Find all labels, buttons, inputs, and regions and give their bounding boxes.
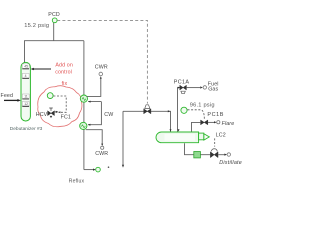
wire: cooler E1 to CWR top (87, 78, 101, 96)
tray 12 (22, 101, 29, 106)
annotation red cloud (38, 86, 82, 127)
tray 5 (22, 73, 29, 78)
svg-text:HCV: HCV (36, 112, 48, 118)
column T1 (21, 62, 30, 121)
wire: main condenser vertical (83, 41, 85, 170)
svg-text:45: 45 (24, 65, 28, 69)
cooler E2 (80, 122, 87, 129)
wire: fuel gas riser from drum (178, 88, 180, 133)
wire: fuel gas line (187, 87, 200, 89)
wire: dashed FC1 signal (53, 96, 66, 112)
controller PC1 circle (181, 107, 187, 113)
svg-text:PC1B: PC1B (207, 112, 224, 118)
svg-text:15.2 psig: 15.2 psig (24, 23, 49, 29)
valve V2 (144, 105, 151, 114)
svg-text:Feed: Feed (1, 93, 14, 99)
wire: condensate line to drum (123, 111, 171, 132)
valve LCV actuator (211, 149, 217, 152)
node CWR top outlet (99, 72, 103, 76)
pump P1 (194, 152, 201, 158)
svg-text:Reflux: Reflux (69, 179, 85, 185)
annotation arrow add-on fix (33, 68, 51, 70)
svg-text:CWR: CWR (95, 151, 108, 157)
node fuel gas outlet (203, 86, 206, 89)
cooler E1 (80, 95, 87, 102)
wire: dashed PC1 to PC1B valve (188, 110, 205, 119)
wire: feed arrow (4, 99, 18, 101)
svg-text:FC1: FC1 (61, 115, 71, 121)
svg-text:Distillate: Distillate (219, 160, 242, 166)
svg-text:Gas: Gas (208, 87, 218, 93)
wire: to flare (208, 121, 215, 123)
svg-text:control: control (55, 70, 72, 76)
node small junction dot (108, 166, 110, 168)
svg-text:PCD: PCD (48, 12, 60, 18)
wire: liquid downcomer with arrow (122, 111, 124, 165)
wire: bottom outlet to mixer (84, 169, 94, 171)
svg-text:Add on: Add on (55, 63, 73, 69)
wire: distillate line from drum (185, 143, 211, 154)
wire: dashed control signal PCD to valve V2 (57, 20, 147, 103)
svg-text:12: 12 (24, 102, 28, 106)
tray 4 (22, 64, 29, 69)
wire: vent line from drum (192, 122, 201, 132)
wire: cooler E2 to CWR bottom (86, 130, 102, 145)
svg-text:96.1 psig: 96.1 psig (190, 103, 215, 109)
wire: overhead vapor line column top to condenser train (25, 41, 84, 63)
valve HCV (48, 108, 59, 118)
svg-text:Flare: Flare (222, 121, 235, 127)
valve PC1B (201, 120, 208, 125)
wire: dashed LC2 signal (214, 138, 216, 146)
svg-text:PC1A: PC1A (174, 79, 190, 85)
node PCD controller (52, 18, 57, 23)
svg-text:LC2: LC2 (216, 133, 226, 139)
wire: distillate arrow (218, 154, 225, 156)
svg-text:CWR: CWR (95, 64, 108, 70)
node flare outlet (217, 121, 220, 124)
controller FC1 circle (47, 93, 53, 99)
svg-text:11: 11 (24, 95, 28, 99)
wire: PCD stem (53, 23, 55, 41)
svg-text:4: 4 (25, 74, 27, 78)
tray 11 (22, 94, 29, 99)
svg-text:Debutanizer #3: Debutanizer #3 (10, 126, 43, 132)
drum D1 reflux accumulator (156, 132, 199, 143)
valve PC1A (180, 85, 187, 94)
node distillate outlet (227, 153, 230, 156)
node CWR bottom outlet (101, 146, 104, 149)
node mixer reflux (96, 167, 101, 172)
drum outlet cone (204, 134, 209, 140)
drum boot box (199, 133, 204, 140)
wire: CW supply loop (88, 102, 101, 125)
svg-text:CW: CW (104, 112, 113, 118)
valve LCV (210, 152, 218, 158)
